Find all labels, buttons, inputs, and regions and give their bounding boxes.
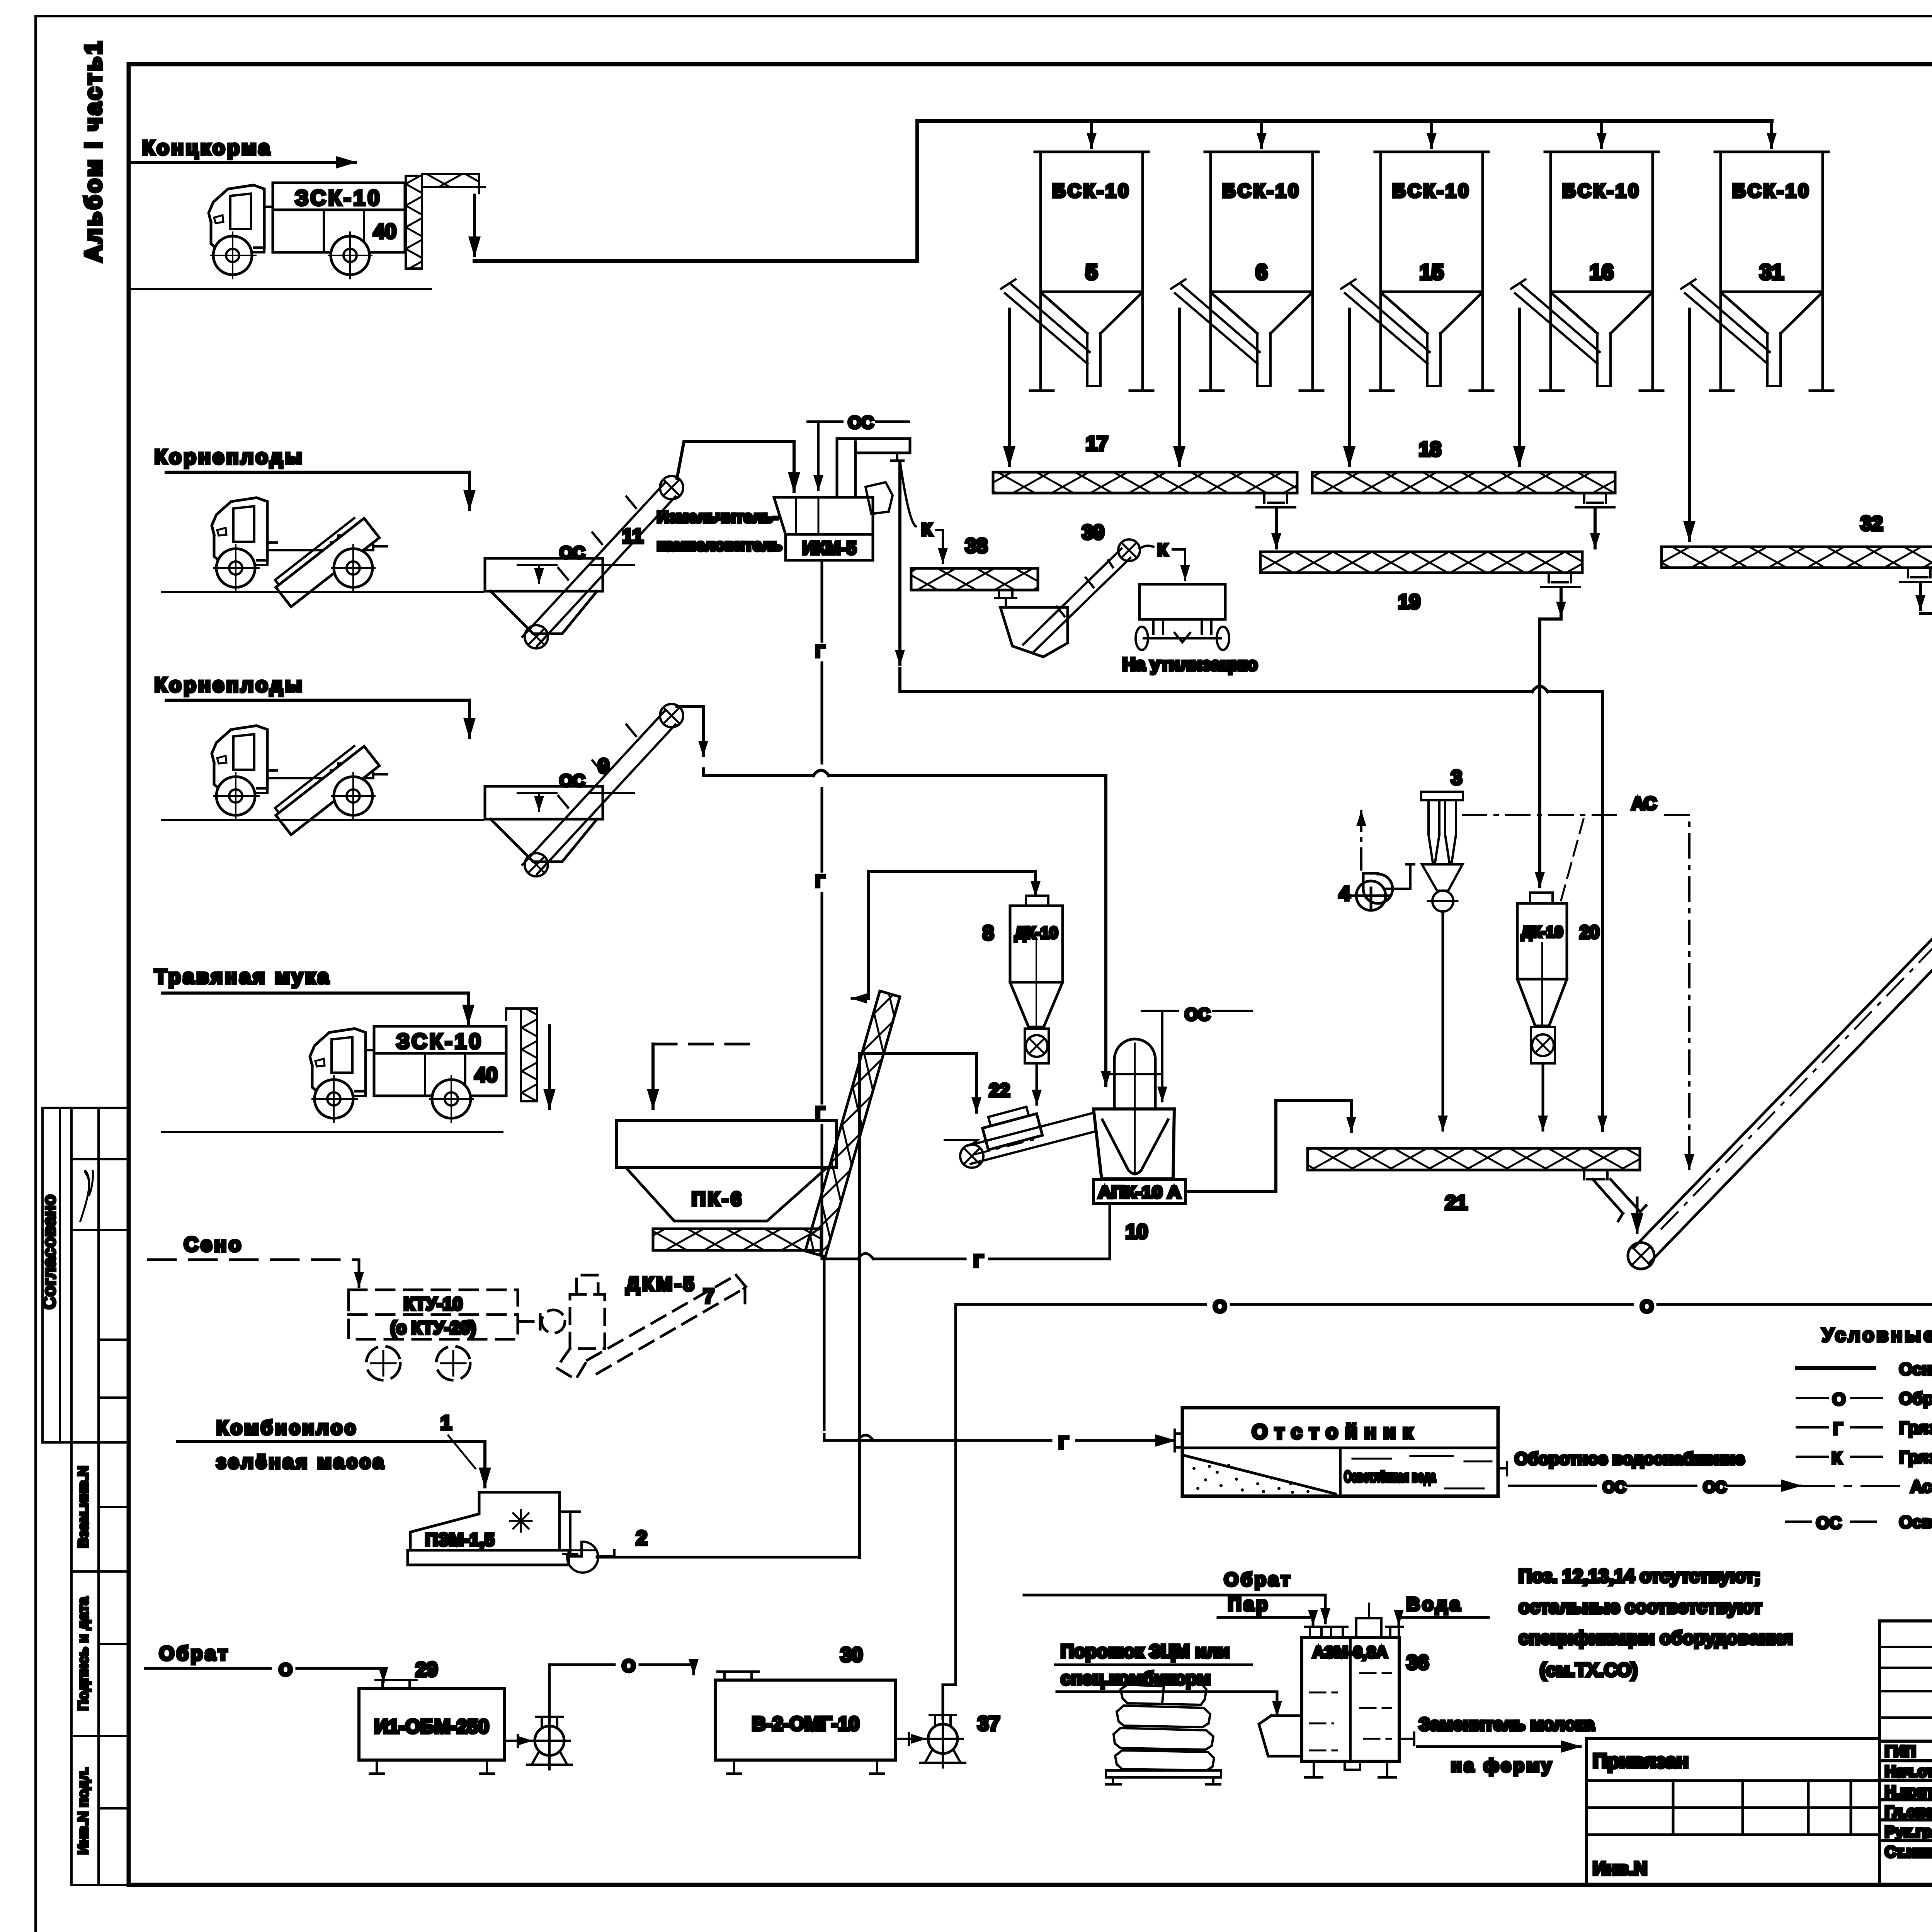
svg-text:Обрат: Обрат: [1224, 1570, 1293, 1590]
svg-text:Концкорма: Концкорма: [142, 137, 272, 159]
svg-text:К: К: [1832, 1449, 1842, 1468]
ground line: [130, 288, 431, 290]
svg-text:Пар: Пар: [1228, 1594, 1270, 1615]
svg-text:зелёная масса: зелёная масса: [216, 1451, 386, 1473]
svg-text:16: 16: [1590, 260, 1614, 284]
ground line: [162, 1131, 502, 1133]
dump truck 2: [212, 498, 387, 607]
wire pump 37 riser: [943, 1304, 956, 1719]
wire silo15 discharge drop to conveyor 18: [1348, 309, 1351, 466]
wire main feed line to silos: [474, 121, 1772, 261]
svg-text:Согласовано: Согласовано: [39, 1195, 59, 1310]
receiving hopper 3: [485, 786, 603, 862]
silo 15 БСК-10: [1341, 152, 1493, 391]
svg-text:Ст.инж.: Ст.инж.: [1885, 1844, 1932, 1861]
svg-text:15: 15: [1420, 260, 1444, 284]
water dashes: [1352, 1456, 1492, 1488]
left (Привязан) part: [1587, 1738, 1879, 1885]
svg-text:38: 38: [965, 535, 988, 557]
svg-text:Взам.инв.N: Взам.инв.N: [75, 1466, 92, 1548]
svg-text:8: 8: [983, 922, 994, 944]
svg-text:Заменитель молока: Заменитель молока: [1419, 1714, 1595, 1734]
svg-text:Привязан: Привязан: [1593, 1750, 1689, 1772]
svg-text:К: К: [922, 520, 932, 539]
unloading auger tower: [406, 176, 422, 269]
svg-text:ГИП: ГИП: [1885, 1743, 1916, 1760]
wire ДК-10(20) discharge to conveyor 21: [1542, 1063, 1544, 1130]
svg-text:3: 3: [1451, 767, 1462, 789]
silo 31 БСК-10: [1681, 152, 1833, 391]
svg-text:Травяная мука: Травяная мука: [155, 966, 331, 988]
svg-text:Г: Г: [815, 872, 825, 891]
conveyor 7 inclined elevator: [805, 991, 900, 1257]
svg-text:Г: Г: [1833, 1419, 1843, 1438]
svg-text:Корнеплоды: Корнеплоды: [155, 674, 304, 696]
svg-text:22: 22: [989, 1080, 1010, 1101]
wire ИКМ product line down/right to conveyor 21: [898, 462, 901, 665]
svg-text:на ферму: на ферму: [1451, 1755, 1554, 1776]
silo 6 БСК-10: [1171, 152, 1323, 391]
legs: [1305, 1761, 1396, 1777]
svg-text:Отстойник: Отстойник: [1252, 1421, 1420, 1443]
ground line: [162, 591, 483, 593]
wire pump2 to riser: [597, 1556, 860, 1559]
svg-text:ОС: ОС: [560, 771, 585, 790]
conveyor 19: [1260, 552, 1582, 573]
svg-text:ПК-6: ПК-6: [692, 1188, 744, 1210]
svg-text:Подпись и дата: Подпись и дата: [75, 1597, 92, 1711]
svg-text:ДКМ-5: ДКМ-5: [626, 1273, 696, 1295]
svg-text:4: 4: [1339, 883, 1350, 905]
svg-text:БСК-10: БСК-10: [1732, 181, 1811, 201]
svg-text:21: 21: [1445, 1192, 1468, 1214]
svg-text:Гл.спец.: Гл.спец.: [1885, 1803, 1932, 1820]
wire auger drop into ПК-6: [548, 1026, 551, 1108]
sidebar lower table: [71, 1442, 129, 1885]
svg-text:Корнеплоды: Корнеплоды: [155, 446, 304, 468]
belt 22->АПК: [966, 1113, 1095, 1164]
svg-text:Г: Г: [1059, 1433, 1068, 1452]
wire to pump: [504, 1735, 532, 1747]
wire Г into settler: [824, 1434, 846, 1440]
utilisation cart: [1139, 584, 1225, 619]
svg-text:9: 9: [598, 755, 609, 777]
svg-text:В-2-ОМГ-10: В-2-ОМГ-10: [752, 1713, 859, 1735]
svg-text:7: 7: [703, 1285, 714, 1308]
svg-text:БСК-10: БСК-10: [1392, 181, 1471, 201]
svg-text:32: 32: [1861, 512, 1883, 535]
wire pump up and right to В-2: [549, 1665, 614, 1721]
svg-text:О: О: [1640, 1297, 1653, 1316]
wire silo drop arrows: [1090, 122, 1093, 148]
wire to truck3: [166, 700, 469, 737]
АПК-10А washer: [1094, 1109, 1174, 1179]
svg-text:ОС: ОС: [848, 413, 874, 432]
svg-text:Альбом I часть1: Альбом I часть1: [80, 39, 106, 262]
svg-text:19: 19: [1398, 591, 1420, 613]
svg-text:Грязная вода: Грязная вода: [1899, 1418, 1932, 1437]
svg-text:(см.ТХ.СО): (см.ТХ.СО): [1540, 1660, 1638, 1680]
wire dashed feed into ПК-6 from right: [653, 1043, 750, 1046]
wire silo5 discharge drop to conveyor 17: [1008, 309, 1011, 466]
wire ДК-10(8) discharge: [1036, 1063, 1038, 1104]
svg-text:ОС: ОС: [1816, 1514, 1842, 1532]
sidebar upper table (Согласовано): [39, 1108, 129, 1442]
svg-text:Осветлённая вода: Осветлённая вода: [1344, 1468, 1436, 1485]
svg-text:39: 39: [1082, 521, 1104, 544]
conveyor 21 discharge chute: [1584, 1170, 1607, 1179]
silo 16 БСК-10: [1511, 152, 1663, 391]
svg-text:30: 30: [840, 1644, 863, 1666]
ДКМ-5 dashed mill: [518, 1275, 746, 1379]
svg-text:камнеловитель: камнеловитель: [657, 536, 782, 554]
conveyor 7 bar under ПК-6: [653, 1229, 821, 1250]
svg-text:ОС: ОС: [1185, 1005, 1210, 1024]
svg-text:АЗМ-0,8А: АЗМ-0,8А: [1313, 1643, 1388, 1661]
svg-text:ОС: ОС: [560, 543, 585, 562]
svg-text:Осветлённая вода: Осветлённая вода: [1899, 1513, 1932, 1532]
svg-text:5: 5: [1085, 260, 1097, 284]
svg-text:Аспирационная сеть: Аспирационная сеть: [1910, 1477, 1932, 1496]
wire Г drain from ИКМ-5 down: [821, 561, 823, 641]
svg-text:Инв.N: Инв.N: [1593, 1859, 1647, 1879]
wire conveyor 9 to АПК-10А: [677, 706, 703, 755]
hopper under 38 + conveyor 39: [1000, 607, 1068, 657]
svg-text:Г: Г: [815, 642, 825, 661]
svg-text:Г: Г: [974, 1252, 983, 1270]
conveyor 9 (inclined): [522, 710, 675, 874]
svg-text:Нач.отд.: Нач.отд.: [1885, 1763, 1932, 1780]
svg-text:КТУ-10: КТУ-10: [404, 1294, 463, 1314]
wire 19 discharge line to cyclone 20: [1560, 588, 1563, 616]
svg-text:О: О: [1213, 1297, 1226, 1316]
svg-text:И1-ОБМ-250: И1-ОБМ-250: [374, 1716, 489, 1737]
svg-text:АПК-10 А: АПК-10 А: [1098, 1183, 1181, 1202]
svg-text:37: 37: [978, 1713, 1000, 1735]
wire to truck2: [166, 472, 469, 509]
svg-text:ОС: ОС: [1703, 1479, 1726, 1496]
wire conveyor 11 to ИКМ-5: [677, 442, 794, 492]
ground line: [162, 819, 483, 821]
svg-text:Порошок ЗЦМ или: Порошок ЗЦМ или: [1061, 1641, 1230, 1662]
Заменитель молока на ферму: [1399, 1733, 1414, 1745]
wire drop arrow from auger: [473, 195, 476, 256]
svg-text:ПЗМ-1,5: ПЗМ-1,5: [425, 1529, 494, 1549]
svg-text:ИКМ-5: ИКМ-5: [802, 538, 856, 558]
svg-text:Сено: Сено: [184, 1233, 243, 1256]
svg-text:Обрат: Обрат: [159, 1643, 230, 1664]
svg-text:БСК-10: БСК-10: [1562, 181, 1641, 201]
wire silo6 discharge drop to conveyor 17: [1178, 309, 1181, 466]
svg-text:17: 17: [1086, 432, 1108, 455]
svg-text:Измельчитель-: Измельчитель-: [657, 508, 778, 526]
svg-text:ОС: ОС: [1603, 1479, 1626, 1496]
wire В-2 to pump 37: [895, 1733, 925, 1745]
svg-text:На утилизацию: На утилизацию: [1122, 654, 1258, 674]
star agitator: [510, 1510, 532, 1532]
svg-text:Условные обозначения: Условные обозначения: [1822, 1324, 1932, 1346]
svg-text:Обрат: Обрат: [1899, 1389, 1932, 1408]
svg-text:БСК-10: БСК-10: [1052, 181, 1131, 201]
auger tower truck4: [521, 1009, 537, 1101]
wire К (stones) from ИКМ to conveyor 38: [900, 464, 916, 526]
svg-text:ДК-10: ДК-10: [1521, 923, 1563, 940]
svg-text:29: 29: [415, 1658, 438, 1681]
wire conveyor 7 to ДК-10 (8): [852, 997, 868, 1000]
wire 32 discharge to cooker 34: [1919, 583, 1922, 610]
wire 18 discharge onto 19: [1594, 509, 1597, 548]
wire to truck4: [162, 993, 468, 1024]
ИКМ-5 stone catcher unit: [774, 497, 873, 534]
wire cyclone3 drain to conveyor 21: [1442, 912, 1444, 1130]
wire К from 39 to utilisation cart: [1140, 546, 1153, 549]
svg-text:АС: АС: [1631, 793, 1656, 813]
cyclone unloader ДК-10 (8): [1026, 896, 1048, 906]
signature names: [1885, 1743, 1932, 1861]
signature table: [1879, 1621, 1932, 1885]
silo 5 БСК-10: [1001, 152, 1153, 391]
wire ДК20 dashed aspiration: [1561, 819, 1583, 900]
svg-text:Н.контр.: Н.контр.: [1885, 1783, 1932, 1800]
svg-text:10: 10: [1126, 1221, 1148, 1243]
svg-text:(с КТУ-20): (с КТУ-20): [390, 1318, 476, 1338]
svg-text:11: 11: [622, 525, 643, 548]
svg-text:6: 6: [1255, 260, 1267, 284]
sediment wedge: [1185, 1456, 1335, 1494]
settler outlet right: [1498, 1462, 1507, 1475]
ПК-6 hopper: [616, 1121, 837, 1168]
svg-text:Рук.гр.: Рук.гр.: [1885, 1823, 1932, 1840]
svg-text:О: О: [279, 1660, 292, 1679]
wire АС aspiration line: [1463, 814, 1619, 816]
wire pump2 line to belt22 area: [860, 1054, 976, 1557]
svg-text:О: О: [1832, 1390, 1845, 1409]
truck ЗСК-10 (грав. мука): [310, 1026, 506, 1122]
wire О main line y3376: [956, 1303, 1206, 1306]
svg-text:О: О: [622, 1656, 635, 1675]
wire 17 discharge onto 19: [1275, 509, 1278, 548]
svg-text:1: 1: [440, 1412, 452, 1434]
svg-text:Основные компоненты: Основные компоненты: [1899, 1360, 1932, 1379]
svg-text:Инв.N подл.: Инв.N подл.: [75, 1767, 92, 1855]
cyclone ДК-10 (20): [1530, 893, 1553, 903]
feed chute left: [1259, 1716, 1302, 1756]
wire silo31 discharge drop to conveyor 32: [1688, 309, 1691, 540]
svg-text:31: 31: [1760, 260, 1784, 284]
svg-text:Грязь,камни: Грязь,камни: [1899, 1448, 1932, 1467]
bags pile: [1106, 1682, 1221, 1784]
wire АПК output to conveyor 21: [1185, 1100, 1351, 1192]
pump between tanks: [527, 1717, 572, 1769]
svg-text:Комбисилос: Комбисилос: [216, 1417, 358, 1439]
svg-text:2: 2: [636, 1527, 647, 1549]
svg-text:К: К: [1157, 541, 1168, 560]
svg-text:Оборотное водоснабжение: Оборотное водоснабжение: [1515, 1449, 1745, 1468]
top fittings: [1305, 1627, 1326, 1638]
svg-text:18: 18: [1419, 438, 1441, 461]
receiving hopper 2: [485, 558, 603, 634]
svg-text:остальные соответствуют: остальные соответствуют: [1519, 1597, 1762, 1617]
svg-text:спецификации оборудования: спецификации оборудования: [1519, 1628, 1793, 1648]
dump truck 3: [212, 726, 387, 835]
svg-text:36: 36: [1406, 1651, 1429, 1674]
svg-text:БСК-10: БСК-10: [1222, 181, 1301, 201]
КТУ-10 dashed wagon: [349, 1290, 518, 1380]
wire fan4 suction dash-dot up: [1360, 811, 1362, 869]
flow arrow Концкорма: [130, 161, 355, 164]
conveyor 11 (inclined): [522, 482, 675, 646]
svg-text:Вода: Вода: [1406, 1594, 1463, 1615]
svg-text:Поз. 12,13,14 отсутствуют;: Поз. 12,13,14 отсутствуют;: [1519, 1566, 1760, 1587]
wire АПК drain Г: [989, 1204, 1110, 1259]
wire silo16 discharge drop to conveyor 18: [1518, 309, 1521, 466]
truck ЗСК-10 #40: [209, 183, 405, 279]
conveyor 21: [1308, 1148, 1640, 1170]
svg-text:20: 20: [1580, 922, 1599, 942]
